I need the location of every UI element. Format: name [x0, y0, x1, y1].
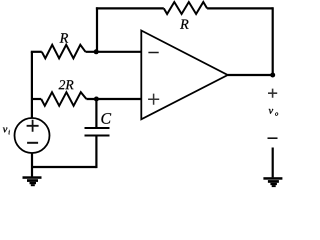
- node: output junction dot: [270, 73, 275, 78]
- resistor 2R (non-inverting branch): [41, 92, 86, 106]
- wire: 2R left stub from rail: [32, 98, 41, 100]
- source plus sign: [27, 120, 39, 132]
- wire: top feedback right segment: [207, 7, 273, 9]
- label R (input resistor value): [60, 33, 69, 42]
- label C (capacitor value): [101, 113, 111, 124]
- wire: source bottom lead to ground: [31, 153, 33, 177]
- wire: right feedback vertical (to output node): [272, 7, 274, 75]
- label v_o: [269, 109, 278, 116]
- op-amp U1 triangle: [141, 31, 227, 120]
- wire: top feedback left segment: [96, 7, 164, 9]
- label v_i: [3, 128, 10, 135]
- wire: output ground stub: [272, 148, 274, 178]
- ground (left, below source): [23, 176, 42, 186]
- op-amp inverting input minus sign: [148, 52, 158, 54]
- wire: feedback left vertical drop to inverting node: [96, 7, 98, 52]
- source v_i circle: [15, 118, 50, 153]
- wire: inverting input wire to op-amp: [86, 51, 142, 53]
- capacitor C plates: [85, 128, 110, 136]
- output minus sign: [268, 137, 278, 139]
- wire: op-amp output to node: [228, 74, 273, 76]
- wire: input R left stub: [31, 51, 42, 53]
- output plus sign: [268, 89, 277, 98]
- node: non-inverting junction dot: [94, 97, 99, 102]
- wire: non-inverting input wire to op-amp: [86, 98, 141, 100]
- ground (right, below output): [263, 177, 282, 187]
- wire: left rail vertical (source top to input R): [31, 52, 33, 118]
- wire: bottom horizontal wire: [32, 166, 96, 168]
- label 2R (resistor value): [59, 80, 74, 89]
- node: inverting input junction dot: [94, 49, 99, 54]
- resistor R (input, inverting branch): [42, 45, 86, 59]
- label R (feedback resistor value): [180, 20, 189, 29]
- resistor R (feedback, top): [164, 2, 207, 14]
- source minus sign: [27, 142, 38, 144]
- wire: capacitor top lead: [95, 99, 97, 128]
- wire: capacitor bottom lead: [95, 136, 97, 169]
- op-amp non-inverting input plus sign: [148, 94, 159, 105]
